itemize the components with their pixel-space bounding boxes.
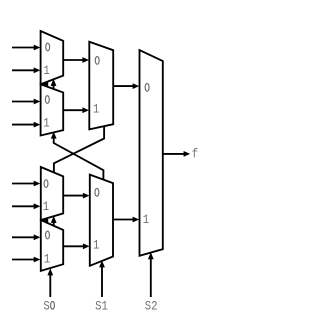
arrowhead select U6 to U2	[51, 132, 57, 139]
wire select S2 riser	[150, 258, 152, 298]
label U4 pin 0	[46, 231, 50, 239]
wire U6 out to U7 in1	[113, 219, 135, 221]
wire input i4	[12, 183, 36, 185]
wire input i7	[12, 259, 36, 261]
wedge arrow at U1/U2 apex	[41, 82, 48, 87]
label U5 pin 0	[95, 57, 99, 65]
svg-text:S: S	[43, 300, 49, 314]
wire input i2	[12, 101, 36, 103]
wire U1 out to U5 in0	[63, 59, 84, 61]
arrowhead select U4 to U3	[51, 216, 57, 223]
arrowhead U4 out	[83, 243, 90, 249]
svg-text:1: 1	[93, 239, 99, 253]
svg-text:1: 1	[93, 103, 99, 117]
wire input i3	[12, 124, 36, 126]
arrowhead input i4	[34, 181, 41, 187]
arrowhead input i5	[34, 203, 41, 209]
wire select chain U3 to U5 (diagonal)	[54, 126, 104, 172]
mux U6 (stage2 bottom)	[90, 175, 113, 266]
wedge arrow at U3/U4 apex	[41, 217, 48, 222]
wire U2 out to U5 in1	[63, 109, 84, 111]
svg-text:1: 1	[43, 200, 49, 214]
wire select chain U4 to U3	[53, 221, 55, 226]
label U1 pin 0	[46, 43, 50, 51]
arrowhead select S2 into U7	[148, 252, 154, 259]
arrowhead U5 out	[133, 83, 140, 89]
mux U7 (stage3)	[140, 50, 163, 256]
wire U3 out to U6 in0	[63, 195, 85, 197]
svg-text:f: f	[192, 148, 198, 162]
arrowhead U2 out	[82, 107, 89, 113]
svg-text:1: 1	[44, 253, 50, 267]
mux U4 (stage1 fourth)	[41, 220, 63, 271]
mux U1 (stage1 top, inputs 0/1)	[41, 31, 64, 84]
arrowhead input i3	[34, 122, 41, 128]
arrowhead input i6	[34, 234, 41, 240]
mux U5 (stage2 top)	[89, 42, 113, 130]
wire select S0 riser	[49, 274, 51, 298]
label U3 pin 0	[44, 180, 48, 188]
arrowhead input i7	[34, 257, 41, 263]
arrowhead select S0 into U4	[47, 268, 53, 275]
svg-text:S2: S2	[145, 300, 158, 314]
wire select chain U2 to U1	[53, 84, 55, 89]
svg-text:1: 1	[43, 64, 49, 78]
label U2 pin 0	[45, 96, 49, 104]
arrowhead input i2	[34, 99, 41, 105]
wire input i5	[12, 205, 36, 207]
svg-text:1: 1	[43, 117, 49, 131]
label U7 pin 0	[145, 84, 149, 92]
wire input i1	[12, 69, 36, 71]
arrowhead U1 out	[82, 57, 89, 63]
wire U5 out to U7 in0	[113, 85, 135, 87]
arrowhead input i1	[34, 67, 41, 73]
arrowhead input i0	[34, 45, 41, 51]
mux U2 (stage1 second)	[41, 84, 64, 135]
wire input i0	[12, 47, 36, 49]
arrowhead U6 out	[133, 217, 140, 223]
arrowhead U3 out	[83, 193, 90, 199]
wire select S1 riser	[101, 266, 103, 298]
wire U4 out to U6 in1	[63, 245, 85, 247]
mux U3 (stage1 third)	[41, 167, 63, 220]
wire output f	[163, 153, 186, 155]
label U6 pin 0	[95, 188, 99, 196]
wire select chain U6 to U2 (diagonal)	[54, 137, 104, 179]
arrowhead output f	[184, 151, 191, 157]
arrowhead select S1 into U6	[99, 260, 105, 267]
svg-text:S1: S1	[95, 300, 108, 314]
svg-text:1: 1	[143, 213, 149, 227]
wire input i6	[12, 236, 36, 238]
arrowhead select U2 to U1	[51, 79, 57, 86]
